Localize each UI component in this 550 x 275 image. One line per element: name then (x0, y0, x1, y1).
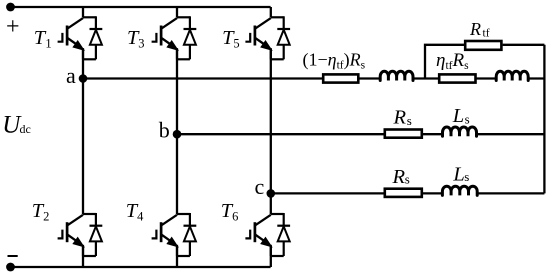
svg-text:+: + (6, 14, 20, 40)
svg-text:(1−ηtf)Rs: (1−ηtf)Rs (303, 50, 366, 72)
svg-text:5: 5 (233, 37, 239, 51)
svg-text:L: L (452, 105, 464, 127)
svg-text:s: s (407, 113, 412, 128)
svg-text:R: R (469, 19, 481, 39)
svg-text:R: R (393, 107, 407, 129)
svg-text:a: a (66, 63, 76, 88)
svg-text:b: b (159, 118, 170, 143)
svg-text:R: R (392, 166, 406, 188)
svg-text:dc: dc (20, 122, 31, 136)
svg-text:6: 6 (232, 210, 238, 224)
svg-text:1: 1 (45, 37, 51, 51)
svg-text:s: s (405, 172, 410, 187)
svg-text:s: s (464, 169, 469, 184)
svg-text:s: s (465, 111, 470, 126)
svg-text:4: 4 (137, 210, 144, 224)
svg-text:2: 2 (43, 210, 49, 224)
svg-text:3: 3 (138, 37, 144, 51)
svg-text:tf: tf (483, 28, 490, 40)
svg-text:L: L (452, 164, 464, 186)
svg-text:c: c (255, 174, 265, 199)
